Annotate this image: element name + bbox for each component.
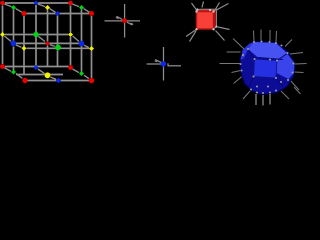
wire E bond: [168, 65, 181, 67]
wire vertical x81.5 lower: [81, 46, 83, 72]
wire diag z3b: [38, 69, 45, 74]
ball right facet highlight: [277, 54, 295, 80]
ball upper-left facet: [241, 42, 255, 60]
atom blue A2: [34, 0, 39, 5]
wire vertical x36: [35, 5, 37, 32]
wire vertical x36 lower: [35, 37, 37, 66]
atom blue A16: [11, 41, 17, 47]
wire ball whisker up2: [260, 30, 262, 41]
wire ball whisker right-up: [290, 53, 303, 55]
wire vertical x47.5 lower: [47, 46, 49, 67]
atom green A12: [79, 5, 84, 10]
wire ball whisker up-left long: [233, 39, 244, 50]
cube front face: [197, 12, 214, 30]
atom red A25: [22, 78, 27, 83]
ball top hexagon facet highlight: [248, 42, 287, 60]
wire ball whisker left-down2: [234, 77, 243, 84]
wire E tick: [167, 63, 169, 66]
wire whisker top-left: [192, 3, 197, 10]
wire NW bond: [117, 16, 123, 19]
wire diag z1b: [38, 4, 45, 7]
wire interior row: [16, 42, 79, 44]
atom yellow A21: [89, 46, 94, 51]
wire ball whisker up1: [253, 31, 256, 42]
wire back row1: [5, 2, 69, 4]
wire vertical bond: [163, 47, 165, 81]
wire ball whisker left: [220, 63, 240, 65]
atom green A22: [11, 70, 16, 75]
atom green A10: [11, 5, 16, 10]
wire ball whisker down-right: [281, 91, 289, 99]
wire diag z3c: [73, 69, 80, 73]
wire whisker bottom-left shallow: [186, 30, 196, 37]
wire vertical x24: [23, 16, 25, 75]
wire vertical x91.5 lower: [91, 51, 93, 79]
wire vertical x70.5 lower: [70, 37, 72, 65]
wire ball whisker down-right2: [294, 87, 301, 94]
wire diag z3a: [4, 68, 11, 71]
wire vertical x81.5: [81, 10, 83, 42]
wire whisker bottom-left steep: [190, 31, 197, 42]
atom yellow A23: [45, 72, 51, 78]
atom red A1: [0, 1, 5, 6]
atom yellow A19: [22, 46, 27, 51]
wire ball whisker down3: [269, 94, 271, 105]
atom red A7: [0, 64, 5, 69]
atom yellow A11: [45, 5, 50, 10]
wire back row3: [5, 66, 69, 68]
cube top band: [197, 9, 217, 11]
wire ball whisker up3: [269, 30, 271, 41]
atom red A27: [89, 78, 95, 84]
wire diag z2b: [38, 36, 45, 41]
atom blue A14: [55, 11, 60, 16]
wire front row3b: [28, 80, 90, 82]
wire SE bond: [127, 22, 132, 25]
wire ball whisker right-down: [290, 80, 299, 90]
wire ball whisker left-down: [232, 71, 241, 73]
atom blue A8: [33, 65, 38, 70]
wire vertical x91.5: [91, 16, 93, 47]
wire vertical bond: [124, 4, 126, 38]
blue polyhedral ball: [220, 30, 307, 106]
wire ball whisker down-left: [243, 91, 250, 99]
atom blue A26: [56, 78, 61, 83]
atom green A24: [79, 71, 84, 76]
wire ball whisker down2: [262, 95, 264, 106]
atom blue A18: [79, 41, 85, 47]
wire back row2: [5, 34, 68, 36]
atom red A9: [68, 65, 73, 70]
wire diag z1c: [72, 4, 79, 7]
atom red A17: [45, 41, 50, 46]
crystal lattice: [3, 3, 92, 81]
atom blue center: [161, 61, 166, 66]
wire front row3a: [16, 74, 63, 76]
wire W bond: [147, 63, 163, 65]
wire whisker top: [202, 2, 204, 8]
atom yellow A4: [0, 32, 5, 37]
ball vertex dots: [239, 40, 294, 94]
wire vertical x13.5: [13, 10, 15, 41]
wire ball whisker right2: [295, 71, 304, 74]
wire diag z1a: [4, 4, 11, 7]
ball body octagon silhouette: [241, 42, 295, 95]
wire vertical x47.5: [47, 10, 49, 42]
wire horizontal bond: [105, 20, 141, 22]
wire vertical x70.5: [70, 6, 72, 33]
wire diag z2c: [73, 36, 79, 42]
wire ball whisker down1: [255, 94, 257, 105]
wire diag z2a: [4, 36, 11, 41]
atom green A5: [33, 32, 38, 37]
wire ball whisker right: [295, 63, 307, 66]
wire ball whisker upper-right: [285, 40, 292, 47]
blue octahedral molecule: [147, 47, 182, 81]
wire front row1: [26, 13, 89, 15]
cube back face: [200, 9, 217, 29]
atom red A13: [22, 11, 27, 16]
cube corner dots: [195, 8, 217, 30]
wire whisker top-right steep: [215, 3, 220, 11]
red octahedral molecule: [105, 4, 141, 38]
ball bright square face: [254, 59, 278, 78]
wire whisker right: [218, 27, 230, 30]
red cube cluster: [186, 2, 230, 42]
wire ball whisker up4: [275, 31, 278, 42]
atom red center: [122, 18, 127, 23]
wire vertical x57.5: [57, 16, 59, 46]
atom red A3: [68, 1, 73, 6]
wire NW bond: [155, 60, 161, 63]
wire whisker bottom-right: [216, 31, 225, 41]
atom red A15: [89, 11, 94, 16]
wire vertical x2.5: [2, 6, 4, 65]
wire whisker top-right shallow: [216, 4, 229, 11]
wire front row2: [27, 47, 90, 49]
atom green A20: [55, 45, 61, 51]
ball facet edge lines: [248, 49, 287, 87]
atom yellow A6: [68, 32, 73, 37]
wire vertical x57.5 lower: [57, 51, 59, 67]
wire vertical x13.5 lower: [13, 47, 15, 71]
wire ball whisker left-up: [227, 51, 241, 53]
